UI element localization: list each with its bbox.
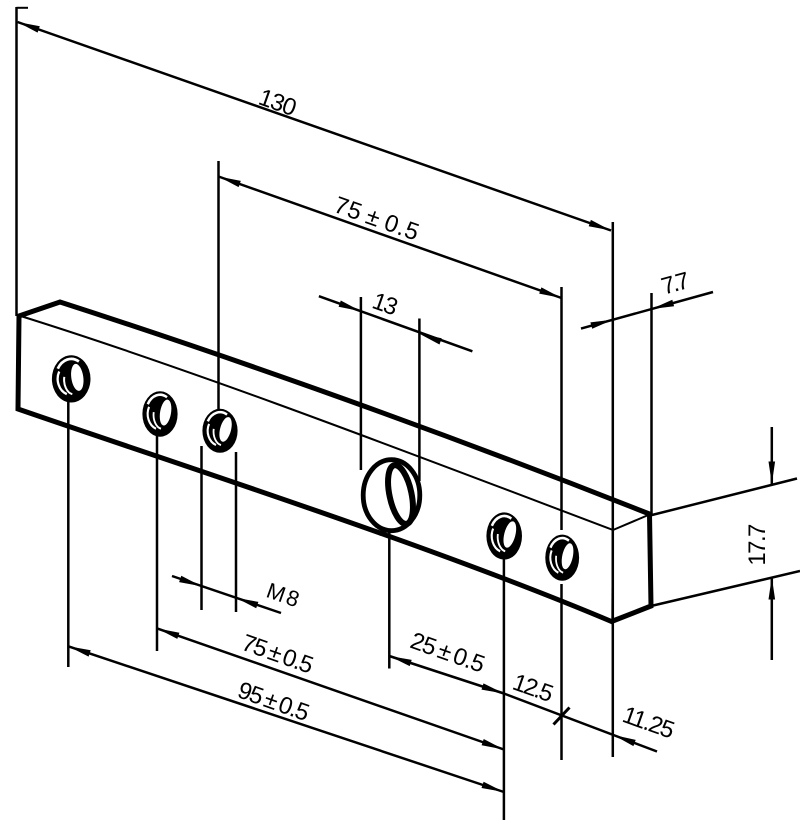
threaded hole 3 (M8) bbox=[202, 409, 237, 453]
leader: big hole center down to 25 dim bbox=[388, 529, 391, 669]
dim line 75±0.5 (bottom, hole2 to hole4) bbox=[157, 628, 504, 749]
dim line 13 (big hole diameter) bbox=[319, 296, 473, 351]
dim line 95±0.5 (bottom, hole1 to hole4) bbox=[68, 646, 504, 792]
dim line 7.7 (depth offset, top right) bbox=[581, 292, 713, 329]
bar front-top edge (thin) bbox=[19, 316, 613, 531]
threaded hole 5 (M8) bbox=[545, 535, 579, 581]
bar front-right edge (thin, on extension line) bbox=[611, 530, 614, 622]
leader: hole 3 right tangent (M8 dim) bbox=[235, 452, 238, 612]
leader: hole 3 left tangent (M8 dim) bbox=[200, 446, 203, 610]
dim line 12.5 / 11.25 (hole4-hole5-right end) bbox=[504, 694, 657, 752]
dim line 25±0.5 (big hole to hole 4) bbox=[389, 656, 504, 694]
bar right end top edge (thin) bbox=[613, 515, 650, 531]
extension line: back right plane (7.7 dim) bbox=[650, 293, 653, 515]
threaded hole 2 (M8) bbox=[142, 391, 177, 436]
extension line: top of right end face (17.7 dim upper) bbox=[650, 479, 797, 516]
extension line: hole 5 center, runs from top 75 dim through bar to bottom dims bbox=[560, 287, 563, 530]
bar outline (thick): chamfer, back-top, right end, bottom, left bbox=[18, 302, 651, 622]
big through hole (13 dia) bbox=[363, 460, 420, 531]
small tick at top of left extension line bbox=[17, 7, 29, 9]
dim line M8 (thread callout, hole 3) bbox=[172, 576, 281, 613]
leader: big hole right tangent (13 dim) bbox=[418, 319, 421, 482]
svg-text:17.7: 17.7 bbox=[744, 524, 771, 566]
oblique slash at hole5 leader (12.5 dim) bbox=[554, 708, 570, 725]
extension line: right end of bar front face (130 / 7.7 / 11.25 dims) bbox=[612, 222, 615, 757]
leader: hole 1 center down to 95 dim bbox=[67, 400, 70, 667]
leader: hole 2 center down to bottom 75 dim bbox=[156, 433, 159, 651]
threaded hole 1 (M8) bbox=[52, 355, 91, 402]
bar body: white faces bbox=[18, 302, 651, 622]
outside arrow pointing at right-end extension (11.25 dim) bbox=[614, 735, 636, 746]
dim line 130 (overall length, top) bbox=[18, 22, 612, 231]
leader: big hole left tangent (13 dim) bbox=[360, 297, 363, 470]
extension line: left end of bar (for 130 dim) bbox=[15, 7, 18, 316]
dim line 17.7 (bar height, right side) bbox=[771, 427, 774, 484]
leader: hole 4 center down to bottom dims bbox=[503, 556, 506, 820]
dim line 75±0.5 (top, hole3 to hole5) bbox=[219, 177, 562, 299]
extension line: bottom of right end face (17.7 dim lower) bbox=[651, 571, 800, 606]
extension line: hole 3 center (top 75 dim, left) bbox=[217, 161, 220, 409]
threaded hole 4 (M8) bbox=[486, 512, 522, 559]
